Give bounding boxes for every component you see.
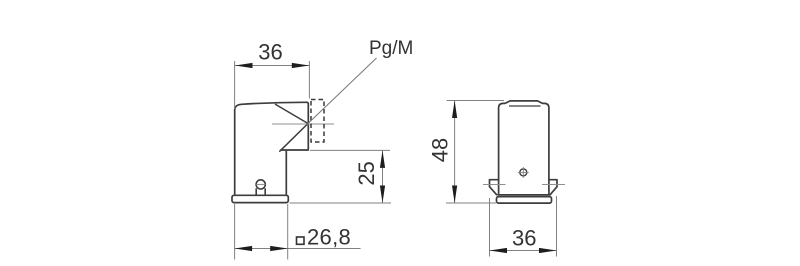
- side view mounting flange bar: [232, 195, 288, 202]
- svg-text:25: 25: [354, 161, 379, 185]
- side view internal funnel diagonal lower: [280, 124, 308, 152]
- front view screw cross mark: [518, 167, 529, 178]
- front view ear centerline right: [542, 184, 565, 186]
- side view dashed Pg/M cable entry rectangle: [311, 100, 324, 143]
- front view top inner edge line: [509, 105, 541, 107]
- front view hood bottom edge: [497, 194, 550, 196]
- front view left flange ear: [490, 180, 499, 196]
- dimension 36 top dimension line: [235, 65, 309, 67]
- side view horizontal centerline of cable entry: [272, 123, 334, 125]
- front view screw head circle: [520, 169, 527, 176]
- dimension 26,8 right arrowhead: [270, 246, 288, 251]
- dimension 36 bottom extension lines: [490, 196, 557, 257]
- dimension 26,8 left arrowhead: [235, 246, 253, 251]
- svg-text:48: 48: [428, 138, 453, 162]
- svg-text:26,8: 26,8: [307, 224, 351, 249]
- dimension 36 bottom dimension line: [490, 250, 557, 252]
- svg-text:Pg/M: Pg/M: [369, 38, 413, 59]
- dimension 25 top arrowhead: [380, 150, 385, 168]
- dimension 26,8 dimension line: [235, 248, 361, 250]
- dimension 25 extension lines: [290, 150, 392, 203]
- dimension 25 dimension line: [382, 150, 384, 203]
- dimension 48 extension lines: [446, 101, 504, 204]
- side view hood body outline: [235, 102, 309, 195]
- dimension 26,8 extension lines: [235, 204, 288, 260]
- dimension 26,8 square symbol: [297, 237, 305, 244]
- svg-text:36: 36: [512, 225, 536, 250]
- front view hood body outline: [499, 101, 549, 195]
- svg-text:36: 36: [258, 40, 282, 65]
- side view locking screw head: [256, 180, 265, 196]
- front view bottom plate bar: [497, 197, 552, 204]
- dimension 25 bottom arrowhead: [380, 186, 385, 204]
- front view ear centerline left: [483, 184, 506, 186]
- dimension 36 bottom left arrowhead: [490, 248, 508, 253]
- dimension 36 top left arrowhead: [235, 63, 253, 68]
- dimension 36 top right arrowhead: [292, 63, 310, 68]
- dimension 36 bottom right arrowhead: [539, 248, 557, 253]
- side view screw slot line: [256, 183, 266, 185]
- side view internal funnel diagonal upper: [276, 104, 309, 123]
- dimension 48 top arrowhead: [452, 101, 457, 119]
- dimension 36 top extension lines: [235, 61, 310, 109]
- Pg/M leader line: [308, 58, 377, 124]
- dimension 48 bottom arrowhead: [452, 186, 457, 204]
- front view right flange ear: [549, 180, 557, 196]
- dimension 48 dimension line: [454, 101, 456, 204]
